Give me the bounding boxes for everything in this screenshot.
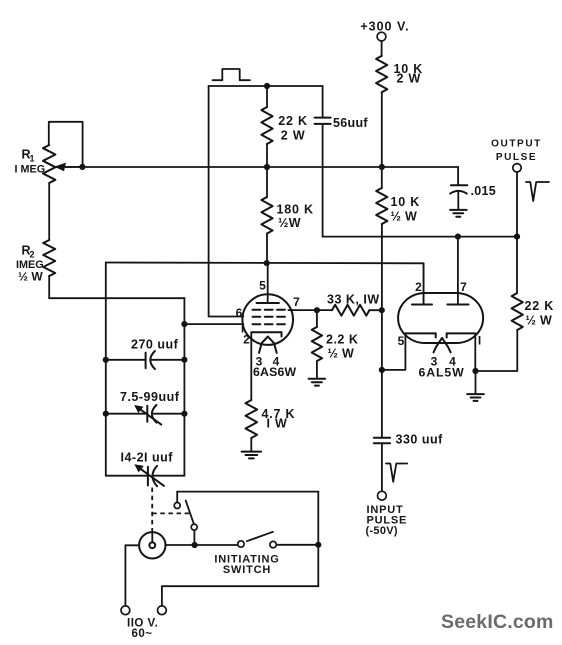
- svg-text:7.5-99uuf: 7.5-99uuf: [120, 390, 180, 404]
- svg-text:6AS6W: 6AS6W: [253, 365, 297, 379]
- svg-text:I W: I W: [267, 417, 288, 431]
- svg-text:½W: ½W: [278, 216, 301, 230]
- svg-text:270 uuf: 270 uuf: [131, 337, 179, 351]
- svg-text:33 K, IW: 33 K, IW: [327, 292, 380, 306]
- svg-text:180 K: 180 K: [277, 202, 314, 216]
- svg-text:5: 5: [398, 334, 405, 348]
- svg-text:7: 7: [460, 280, 467, 294]
- svg-text:PULSE: PULSE: [496, 152, 537, 163]
- svg-text:(-50V): (-50V): [366, 525, 398, 537]
- svg-text:2 W: 2 W: [281, 128, 306, 142]
- svg-text:½ W: ½ W: [18, 269, 43, 283]
- svg-text:OUTPUT: OUTPUT: [491, 139, 542, 150]
- svg-text:1: 1: [30, 154, 35, 164]
- svg-text:SWITCH: SWITCH: [223, 564, 271, 576]
- svg-text:6: 6: [236, 306, 243, 320]
- svg-text:5: 5: [259, 279, 266, 293]
- svg-text:2: 2: [243, 333, 250, 347]
- svg-text:I MEG: I MEG: [15, 163, 46, 175]
- svg-text:½ W: ½ W: [526, 314, 553, 328]
- svg-text:I4-2I uuf: I4-2I uuf: [121, 450, 174, 464]
- svg-text:I: I: [478, 334, 481, 348]
- svg-text:7: 7: [293, 295, 300, 309]
- svg-text:22 K: 22 K: [278, 114, 308, 128]
- svg-text:2 W: 2 W: [397, 72, 422, 86]
- svg-text:½ W: ½ W: [328, 346, 355, 360]
- svg-text:22 K: 22 K: [525, 299, 555, 313]
- svg-text:56uuf: 56uuf: [333, 116, 368, 130]
- svg-text:10 K: 10 K: [391, 195, 421, 209]
- svg-text:SeekIC.com: SeekIC.com: [441, 611, 554, 633]
- svg-text:+300 V.: +300 V.: [360, 20, 409, 34]
- svg-text:2.2 K: 2.2 K: [326, 333, 358, 347]
- svg-text:½ W: ½ W: [391, 210, 418, 224]
- svg-text:.015: .015: [471, 184, 497, 198]
- svg-text:2: 2: [415, 280, 422, 294]
- svg-text:6AL5W: 6AL5W: [419, 365, 465, 379]
- svg-text:60~: 60~: [132, 628, 153, 640]
- svg-text:330 uuf: 330 uuf: [396, 433, 444, 447]
